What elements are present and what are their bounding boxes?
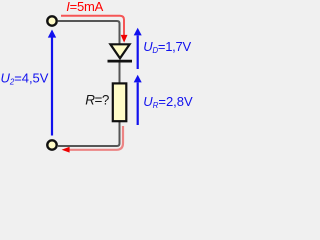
- svg-text:U2=4,5V: U2=4,5V: [1, 70, 49, 86]
- svg-text:R=?: R=?: [85, 93, 109, 108]
- svg-text:UR=2,8V: UR=2,8V: [143, 94, 193, 110]
- svg-text:I=5mA: I=5mA: [66, 0, 103, 14]
- svg-text:UD=1,7V: UD=1,7V: [143, 39, 191, 55]
